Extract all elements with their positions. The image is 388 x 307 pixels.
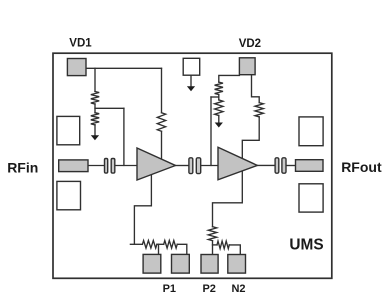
resistor R9 (142, 241, 157, 249)
wire VD1 pad to drain column (86, 67, 162, 69)
resistor R6 (255, 103, 263, 117)
wire VD2 pad left feed (219, 75, 240, 82)
wire gate bias 2 vertical (210, 97, 212, 165)
wire R5 to ground (218, 116, 220, 123)
resistor R8 (217, 241, 229, 249)
svg-text:P1: P1 (163, 283, 176, 295)
ground arrow mid pad (187, 86, 195, 91)
resistor R10 (164, 241, 178, 249)
wire C1 to U1 input (115, 165, 137, 167)
wire R7 to pad P2 (212, 241, 214, 255)
wire U2 output to C3 (257, 164, 275, 166)
pad white right upper (299, 117, 323, 146)
wire junction to R8 (213, 244, 218, 246)
pad P2 (201, 255, 218, 274)
wire R6 to amplifier U2 top (242, 117, 259, 158)
pad white left upper (57, 116, 80, 144)
wire gate bias 1 horizontal (95, 107, 124, 109)
svg-text:N2: N2 (231, 283, 245, 295)
pad VD1 (67, 59, 86, 76)
pad VD2 (239, 58, 255, 75)
wire R8 to pad N2 (229, 245, 240, 255)
pad mid ground (white) (183, 58, 200, 75)
wire stub to pad P1a (158, 244, 160, 254)
resistor R5 (215, 100, 223, 116)
svg-text:RFout: RFout (341, 159, 382, 175)
svg-text:UMS: UMS (289, 237, 323, 254)
wire mid ground pad stem (190, 75, 192, 87)
pad white left lower (57, 181, 81, 209)
pad P1b (172, 254, 190, 273)
wire R1 to R2 junction (94, 104, 96, 113)
wire gate bias 2 jog (211, 96, 219, 98)
wire U2 source down-left-down (213, 171, 243, 227)
wire C2 to U2 input (201, 165, 218, 167)
pad RFout (296, 160, 324, 172)
chip outline border (53, 53, 332, 278)
svg-text:RFin: RFin (7, 160, 38, 176)
svg-text:VD1: VD1 (69, 38, 92, 50)
svg-text:VD2: VD2 (239, 38, 261, 50)
pad N2 (228, 255, 246, 274)
op-amp U2 (218, 147, 257, 180)
wire VD2 pad bottom to R6 (252, 75, 260, 103)
wire VD1 feed down to R1 (94, 68, 96, 91)
wire R10 to pad P1b (177, 244, 187, 254)
pad P1a (143, 254, 161, 273)
wire R2 to ground (94, 125, 96, 136)
svg-text:P2: P2 (202, 283, 215, 295)
op-amp U1 (137, 148, 176, 180)
capacitor C2 (189, 158, 201, 174)
resistor R7 (208, 227, 216, 241)
resistor R1 (91, 92, 99, 105)
resistor R4 (215, 82, 223, 94)
resistor R3 (157, 113, 165, 132)
pad white right lower (299, 184, 323, 212)
wire U1 output to C2 (176, 165, 189, 167)
wire C3 to RFout pad (286, 165, 296, 167)
resistor R2 (91, 113, 99, 125)
wire drain column 1 down (161, 68, 163, 112)
wire gate bias 1 vertical to RF line (123, 108, 125, 165)
capacitor C1 (105, 159, 115, 174)
capacitor C3 (275, 158, 286, 173)
wire RFin pad to C1 (88, 165, 105, 167)
wire between R9 and R10 (157, 243, 164, 245)
wire R3 to amplifier U1 top (161, 131, 163, 160)
ground arrow stage 2 (215, 123, 223, 128)
wire bias line 1 left stub (130, 243, 142, 245)
pad RFin (59, 160, 88, 172)
wire U1 source down-left-down (134, 174, 151, 244)
ground arrow stage 1 (91, 135, 99, 140)
wire R4 to R5 junction (218, 95, 220, 100)
